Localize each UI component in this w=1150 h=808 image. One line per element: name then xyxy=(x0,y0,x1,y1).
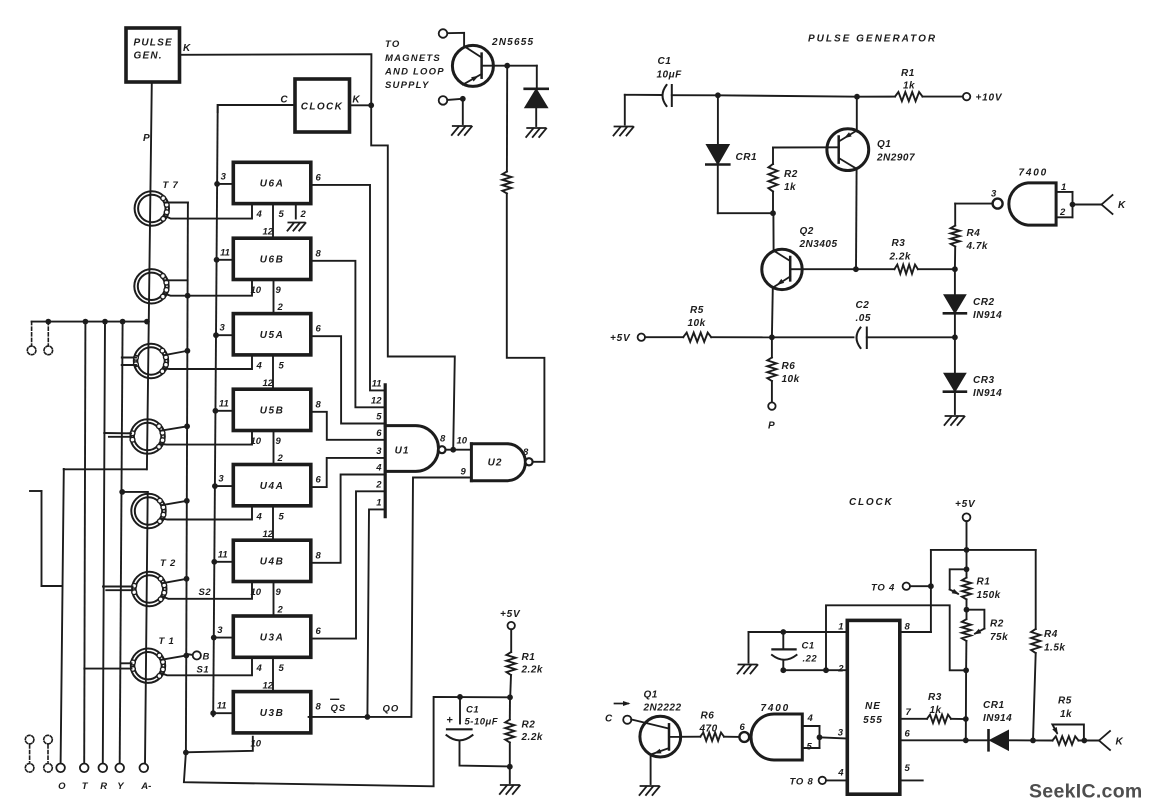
svg-text:470: 470 xyxy=(699,724,718,735)
svg-text:7400: 7400 xyxy=(761,703,790,714)
svg-text:C1: C1 xyxy=(466,705,479,716)
svg-text:6: 6 xyxy=(316,324,322,335)
svg-text:6: 6 xyxy=(316,172,322,183)
svg-text:U3B: U3B xyxy=(260,708,285,719)
svg-text:9: 9 xyxy=(276,285,282,296)
svg-text:7400: 7400 xyxy=(1019,168,1048,179)
svg-text:8: 8 xyxy=(316,248,322,259)
svg-text:R2: R2 xyxy=(522,720,536,731)
svg-text:R3: R3 xyxy=(892,238,906,249)
svg-text:CR3: CR3 xyxy=(973,375,995,386)
svg-text:11: 11 xyxy=(218,549,228,560)
svg-text:U5A: U5A xyxy=(260,330,285,341)
svg-text:7: 7 xyxy=(906,707,912,718)
svg-text:6: 6 xyxy=(316,626,322,637)
svg-text:R5: R5 xyxy=(690,305,704,316)
svg-text:3: 3 xyxy=(376,446,382,457)
svg-text:2: 2 xyxy=(837,664,844,675)
svg-text:C1: C1 xyxy=(658,56,672,67)
svg-text:2: 2 xyxy=(375,480,382,491)
svg-text:6: 6 xyxy=(316,475,322,486)
svg-text:2N5655: 2N5655 xyxy=(491,37,534,48)
svg-text:12: 12 xyxy=(263,227,274,238)
svg-text:+5V: +5V xyxy=(610,333,631,344)
svg-text:10: 10 xyxy=(457,436,468,447)
svg-text:5: 5 xyxy=(279,511,285,522)
svg-text:K: K xyxy=(352,95,360,106)
svg-text:CLOCK: CLOCK xyxy=(849,497,894,508)
svg-text:2: 2 xyxy=(277,453,284,464)
svg-text:2: 2 xyxy=(277,605,284,616)
svg-text:5-10μF: 5-10μF xyxy=(465,717,499,728)
svg-text:12: 12 xyxy=(263,529,274,540)
svg-text:TO: TO xyxy=(385,39,400,50)
svg-text:12: 12 xyxy=(371,396,382,407)
svg-text:QS: QS xyxy=(331,703,347,714)
svg-text:IN914: IN914 xyxy=(983,713,1012,724)
svg-text:+10V: +10V xyxy=(976,93,1003,104)
svg-text:6: 6 xyxy=(740,722,746,733)
svg-text:K: K xyxy=(1118,200,1126,211)
svg-text:1k: 1k xyxy=(903,81,915,92)
svg-text:1k: 1k xyxy=(1060,709,1072,720)
svg-text:2.2k: 2.2k xyxy=(889,252,911,263)
svg-text:U6A: U6A xyxy=(260,179,285,190)
svg-text:CR2: CR2 xyxy=(973,297,995,308)
svg-text:AND LOOP: AND LOOP xyxy=(384,67,445,78)
svg-text:U5B: U5B xyxy=(260,406,285,417)
svg-text:U2: U2 xyxy=(488,458,503,469)
svg-text:R2: R2 xyxy=(990,619,1004,630)
svg-text:4: 4 xyxy=(256,511,263,522)
svg-text:4: 4 xyxy=(375,463,382,474)
svg-text:2N2222: 2N2222 xyxy=(643,703,682,714)
svg-text:3: 3 xyxy=(221,171,227,182)
svg-text:CR1: CR1 xyxy=(736,152,758,163)
svg-text:CLOCK: CLOCK xyxy=(301,102,344,113)
svg-text:U3A: U3A xyxy=(260,632,285,643)
svg-text:U1: U1 xyxy=(395,446,410,457)
svg-text:2N2907: 2N2907 xyxy=(876,153,915,164)
svg-text:U4B: U4B xyxy=(260,557,285,568)
svg-text:S1: S1 xyxy=(197,665,210,676)
svg-text:+5V: +5V xyxy=(955,499,976,510)
svg-text:IN914: IN914 xyxy=(973,310,1002,321)
svg-text:2: 2 xyxy=(300,209,307,220)
svg-text:TO 4: TO 4 xyxy=(871,583,895,594)
svg-text:5: 5 xyxy=(807,742,813,753)
svg-text:Q1: Q1 xyxy=(644,690,658,701)
svg-text:P: P xyxy=(143,133,150,144)
svg-text:B: B xyxy=(203,652,210,663)
svg-text:U4A: U4A xyxy=(260,481,285,492)
svg-text:2N3405: 2N3405 xyxy=(799,239,838,250)
svg-text:R3: R3 xyxy=(928,692,942,703)
svg-text:Q2: Q2 xyxy=(800,226,814,237)
svg-text:4: 4 xyxy=(837,768,844,779)
svg-text:R1: R1 xyxy=(901,68,915,79)
svg-text:R6: R6 xyxy=(701,711,715,722)
svg-text:+5V: +5V xyxy=(500,609,521,620)
svg-text:8: 8 xyxy=(905,622,911,633)
svg-text:6: 6 xyxy=(376,428,382,439)
svg-text:PULSE: PULSE xyxy=(134,38,173,49)
svg-text:3: 3 xyxy=(838,728,844,739)
svg-text:4: 4 xyxy=(256,360,263,371)
svg-text:R2: R2 xyxy=(784,169,798,180)
svg-text:150k: 150k xyxy=(977,590,1001,601)
svg-text:K: K xyxy=(183,43,191,54)
svg-text:5: 5 xyxy=(905,763,911,774)
svg-text:11: 11 xyxy=(219,398,229,409)
svg-text:3: 3 xyxy=(220,323,226,334)
svg-text:3: 3 xyxy=(217,625,223,636)
svg-text:R5: R5 xyxy=(1058,696,1072,707)
svg-text:K: K xyxy=(1116,737,1124,748)
svg-text:R: R xyxy=(100,781,107,792)
svg-text:NE: NE xyxy=(865,701,881,712)
svg-text:S2: S2 xyxy=(199,587,212,598)
svg-text:4: 4 xyxy=(256,209,263,220)
svg-text:A-: A- xyxy=(140,781,151,792)
svg-text:2: 2 xyxy=(1059,207,1066,218)
svg-text:9: 9 xyxy=(276,587,282,598)
svg-text:TO 8: TO 8 xyxy=(790,777,814,788)
svg-text:2.2k: 2.2k xyxy=(521,665,543,676)
svg-text:C1: C1 xyxy=(802,641,815,652)
svg-text:.05: .05 xyxy=(856,313,871,324)
svg-text:5: 5 xyxy=(279,360,285,371)
svg-text:1.5k: 1.5k xyxy=(1044,643,1065,654)
svg-text:2: 2 xyxy=(277,302,284,313)
svg-text:GEN.: GEN. xyxy=(134,51,163,62)
svg-text:1: 1 xyxy=(1061,182,1066,193)
svg-text:3: 3 xyxy=(991,189,997,200)
svg-text:8: 8 xyxy=(316,550,322,561)
svg-text:75k: 75k xyxy=(990,632,1008,643)
svg-text:MAGNETS: MAGNETS xyxy=(385,53,441,64)
svg-text:U6B: U6B xyxy=(260,255,285,266)
svg-text:12: 12 xyxy=(263,680,274,691)
svg-text:10k: 10k xyxy=(688,318,706,329)
svg-text:11: 11 xyxy=(372,379,382,390)
svg-text:10k: 10k xyxy=(782,374,800,385)
svg-text:T 2: T 2 xyxy=(160,558,176,569)
svg-text:9: 9 xyxy=(461,467,467,478)
svg-text:11: 11 xyxy=(220,247,230,258)
svg-text:R4: R4 xyxy=(1044,629,1058,640)
svg-text:5: 5 xyxy=(376,412,382,423)
svg-text:12: 12 xyxy=(263,378,274,389)
svg-text:1: 1 xyxy=(376,498,381,509)
svg-text:P: P xyxy=(768,421,775,432)
svg-text:SUPPLY: SUPPLY xyxy=(385,80,430,91)
svg-text:O: O xyxy=(58,781,66,792)
svg-text:1: 1 xyxy=(838,622,843,633)
svg-text:PULSE GENERATOR: PULSE GENERATOR xyxy=(808,34,937,45)
svg-text:11: 11 xyxy=(217,701,227,712)
svg-text:555: 555 xyxy=(863,715,883,726)
svg-text:.22: .22 xyxy=(803,654,818,665)
svg-text:5: 5 xyxy=(279,209,285,220)
svg-text:1k: 1k xyxy=(784,182,796,193)
svg-text:+: + xyxy=(447,715,453,727)
svg-text:2.2k: 2.2k xyxy=(521,732,543,743)
svg-text:8: 8 xyxy=(316,399,322,410)
svg-text:SeekIC.com: SeekIC.com xyxy=(1029,781,1143,803)
svg-text:C: C xyxy=(280,95,288,106)
svg-text:C: C xyxy=(605,714,613,725)
svg-text:Q1: Q1 xyxy=(877,139,891,150)
svg-text:R1: R1 xyxy=(977,577,991,588)
svg-text:8: 8 xyxy=(316,702,322,713)
svg-text:QO: QO xyxy=(383,704,400,715)
svg-text:T 1: T 1 xyxy=(159,636,175,647)
svg-text:5: 5 xyxy=(279,663,285,674)
svg-text:R4: R4 xyxy=(967,228,981,239)
svg-text:10μF: 10μF xyxy=(657,70,683,81)
svg-text:IN914: IN914 xyxy=(973,388,1002,399)
svg-text:4.7k: 4.7k xyxy=(966,241,988,252)
svg-text:1k: 1k xyxy=(930,705,942,716)
svg-text:C2: C2 xyxy=(856,300,870,311)
svg-text:R1: R1 xyxy=(522,652,536,663)
svg-text:8: 8 xyxy=(440,434,446,445)
svg-text:6: 6 xyxy=(905,729,911,740)
svg-text:4: 4 xyxy=(807,713,814,724)
svg-text:4: 4 xyxy=(256,663,263,674)
svg-text:3: 3 xyxy=(218,474,224,485)
svg-text:CR1: CR1 xyxy=(983,700,1005,711)
svg-text:R6: R6 xyxy=(782,361,796,372)
svg-text:9: 9 xyxy=(276,436,282,447)
svg-text:T 7: T 7 xyxy=(163,180,179,191)
